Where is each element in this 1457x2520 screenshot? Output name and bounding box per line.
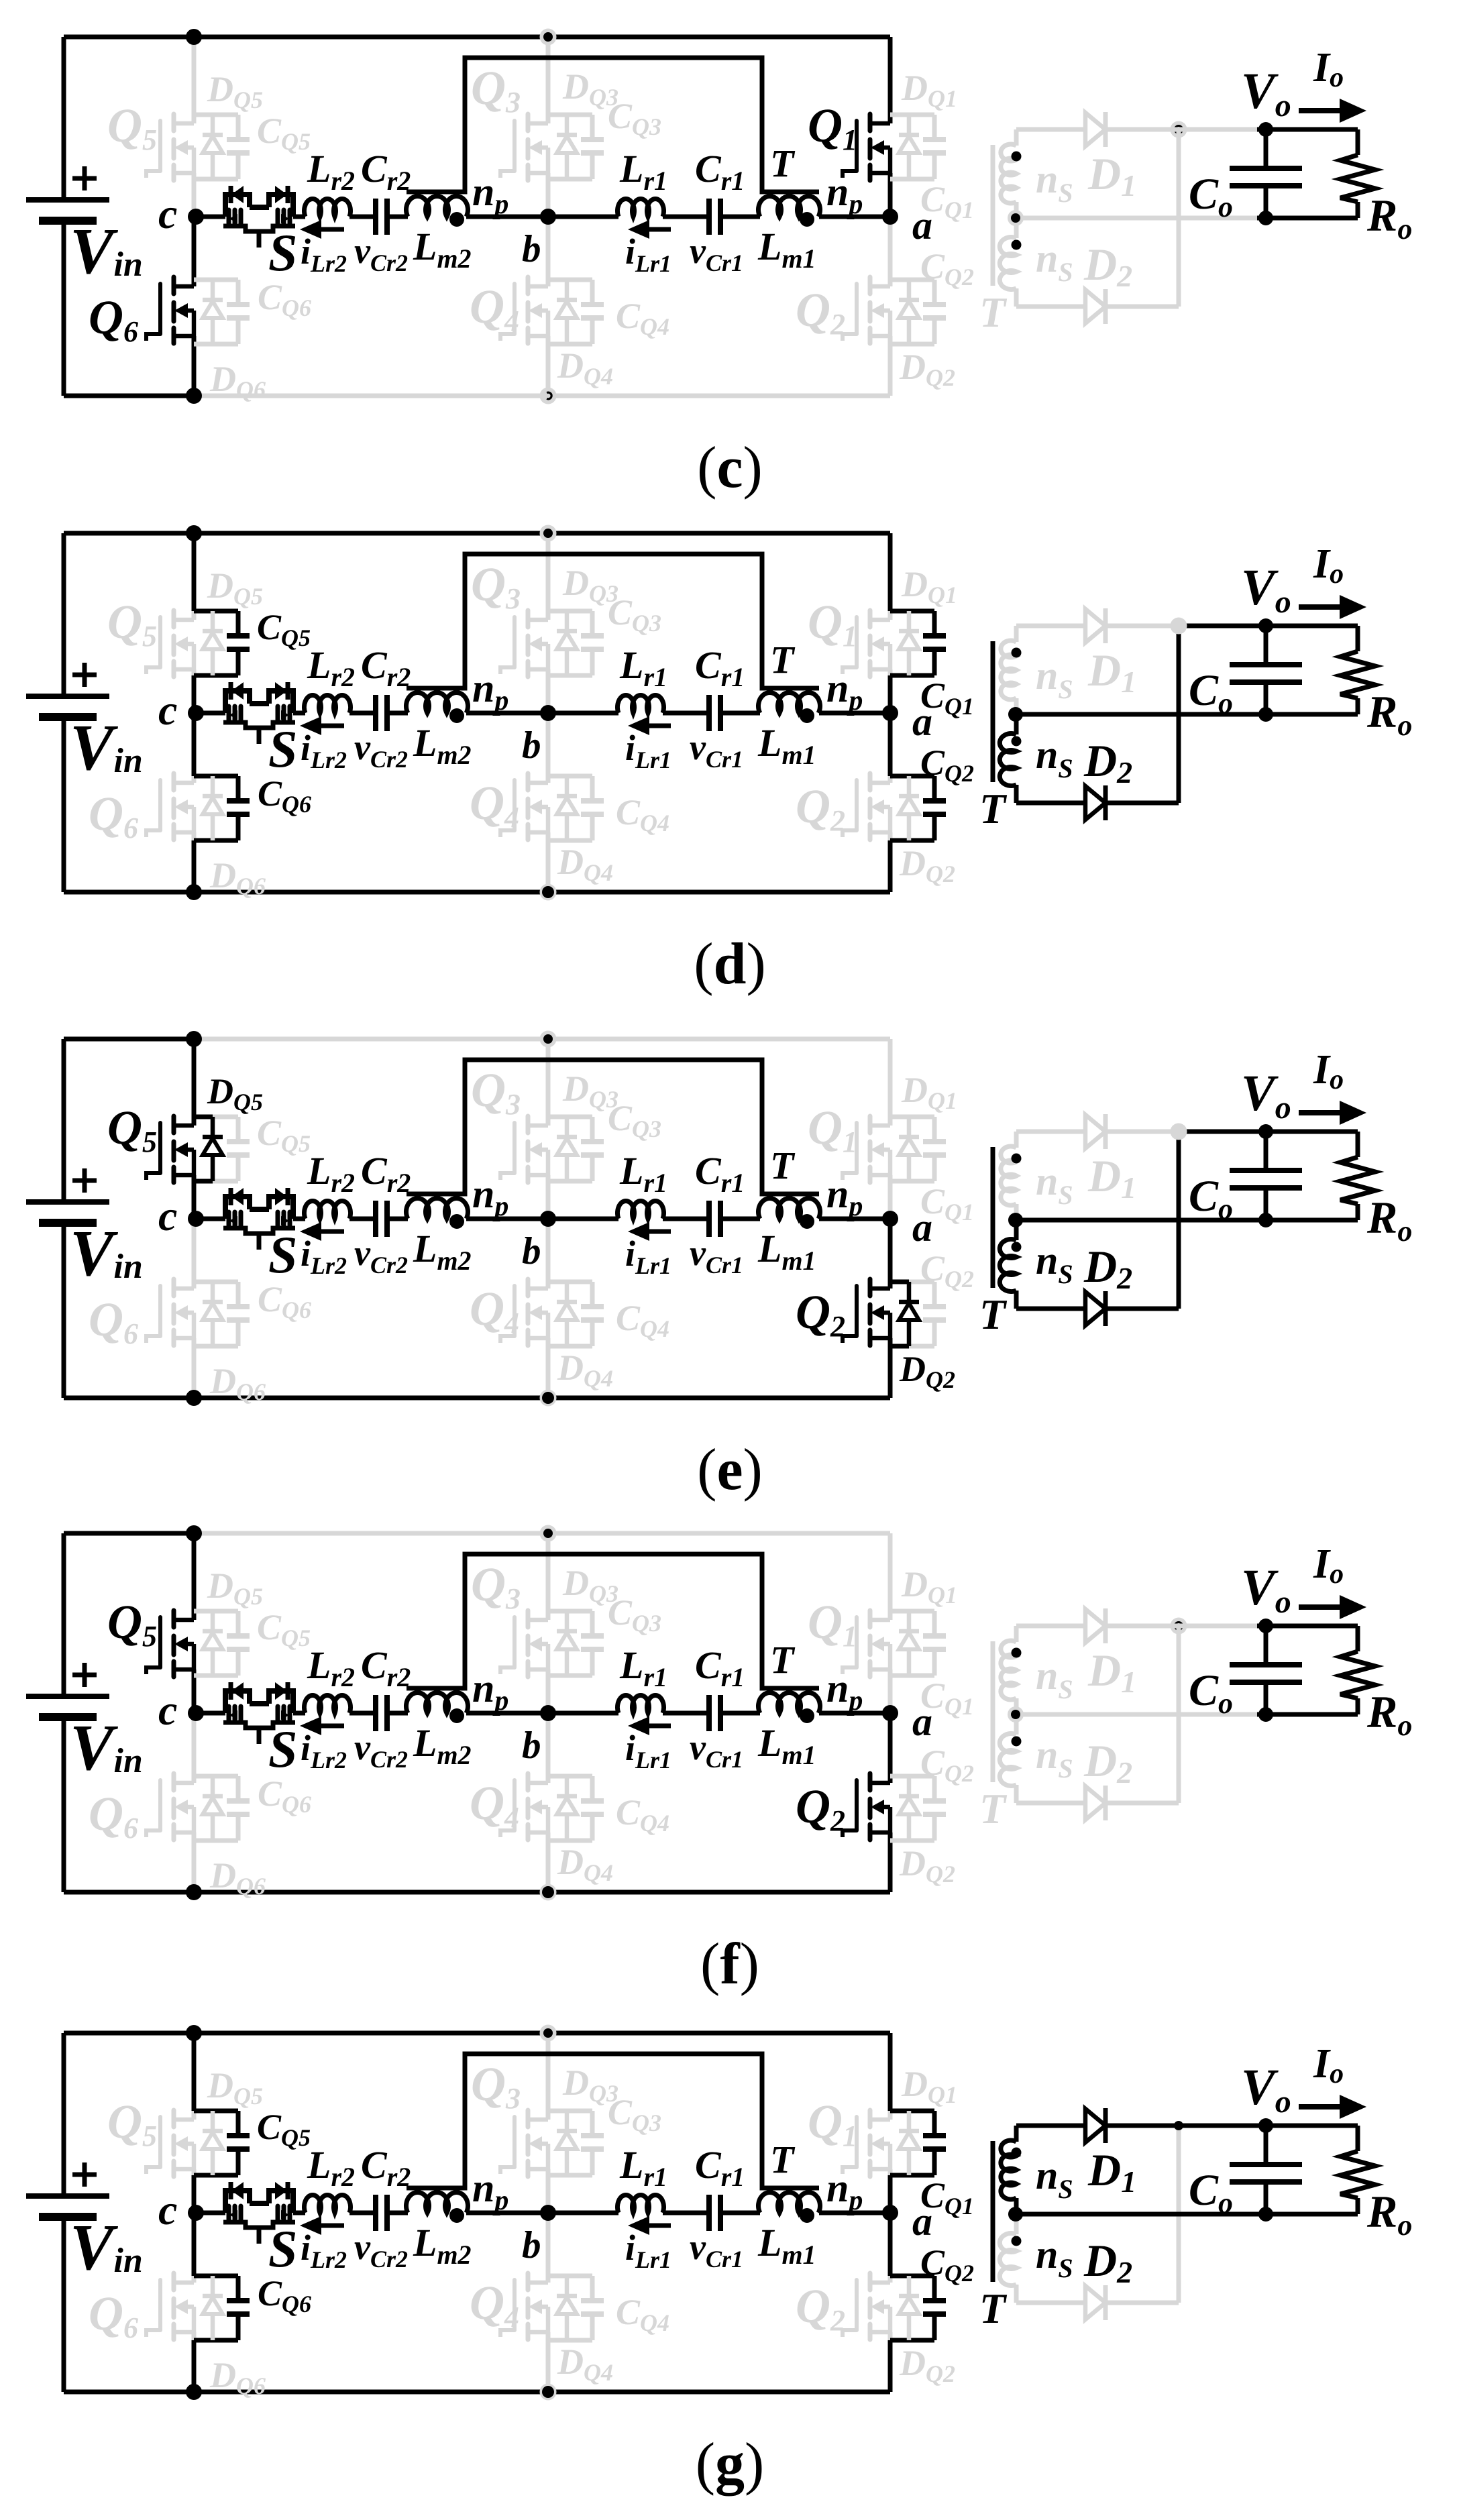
- svg-text:b: b: [522, 1724, 541, 1767]
- wire Q1 drain segment: [888, 1117, 893, 1126]
- wire D1 to junction: [1105, 127, 1179, 132]
- wire Cr1 to Lm1: [720, 1711, 760, 1716]
- wire Q6 leg upper segment: [192, 2213, 197, 2276]
- diode DQ5: [203, 611, 223, 675]
- polarity dot ns bottom: [1012, 2236, 1022, 2246]
- resistor Ro: [1340, 1626, 1375, 1714]
- node rectifier junction: [1171, 1124, 1187, 1140]
- wire Q5 leg upper segment: [192, 1039, 197, 1117]
- wire Q3 branch top: [548, 113, 592, 117]
- wire Q4 branch bottom: [548, 342, 592, 347]
- wire Q5 branch bottom: [194, 2173, 238, 2178]
- node top-middle junction: [540, 525, 557, 542]
- current arrow iLr1: [628, 2216, 671, 2235]
- node bottom-middle junction: [540, 2384, 557, 2401]
- inductor Lr2: [305, 199, 351, 217]
- wire Q1 branch bottom: [890, 673, 934, 678]
- diode DQ2: [899, 1776, 919, 1841]
- wire junction to output top: [1179, 127, 1257, 132]
- wire Q3 source segment: [546, 669, 551, 713]
- capacitor CQ4: [581, 1776, 604, 1841]
- diode DQ3: [557, 1117, 577, 1181]
- wire bottom rail left: [64, 1890, 194, 1895]
- current arrow Io: [1299, 1101, 1366, 1125]
- wire Lm2 to b: [466, 1711, 548, 1716]
- transformer primary winding Lm1 np: [759, 693, 820, 713]
- wire top rail left: [64, 531, 194, 536]
- wire Q4 source segment: [546, 336, 551, 396]
- inductor Lr2: [305, 1695, 351, 1713]
- wire Q5 source segment: [192, 2169, 197, 2213]
- node Vo: [1258, 618, 1273, 633]
- node rectifier junction: [1171, 121, 1187, 138]
- switch S: [223, 186, 296, 248]
- label + polarity: [72, 2162, 97, 2187]
- inductor Lr2: [305, 2195, 351, 2213]
- wire riser D2 branch: [1177, 1626, 1181, 1803]
- node top-middle junction: [540, 1031, 557, 1048]
- svg-text:T: T: [770, 1638, 796, 1682]
- wire Q4 branch top: [548, 774, 592, 779]
- polarity dot ns top: [1012, 2148, 1022, 2158]
- wire Q2 branch bottom: [890, 1839, 934, 1843]
- capacitor CQ6: [227, 1282, 250, 1346]
- wire Q2 branch bottom: [890, 1344, 909, 1349]
- current arrow iLr1: [628, 220, 671, 239]
- wire Q1 leg upper segment: [888, 2033, 893, 2111]
- wire Q6 branch top: [194, 1280, 238, 1284]
- wire Q2 branch bottom: [890, 838, 934, 843]
- polarity dot Lm2: [449, 708, 464, 723]
- svg-text:T: T: [770, 142, 796, 185]
- node top-left junction: [186, 29, 202, 45]
- node Co bottom: [1258, 1213, 1273, 1227]
- node b: [540, 2205, 556, 2221]
- wire top rail right: [194, 35, 890, 40]
- capacitor CQ2: [923, 776, 946, 840]
- wire Q3 branch top: [548, 1115, 592, 1119]
- wire center tap: [1016, 712, 1257, 717]
- wire Q4 drain segment: [546, 1282, 551, 1289]
- node Co bottom: [1258, 1707, 1273, 1722]
- wire S to Lr2: [293, 215, 305, 219]
- diode D2: [1085, 2285, 1105, 2320]
- wire Q3 leg upper segment: [546, 533, 551, 611]
- wire Q4 source segment: [546, 2332, 551, 2392]
- wire top winding to D1: [1016, 2124, 1085, 2128]
- label + polarity: [72, 1663, 97, 1687]
- transformer core bar: [991, 2141, 995, 2282]
- wire Q1 source segment: [888, 1669, 893, 1713]
- diode DQ3: [557, 1611, 577, 1676]
- label + polarity: [72, 1168, 97, 1193]
- wire Q6 branch top: [194, 774, 238, 779]
- wire riser D2 branch: [1177, 1132, 1181, 1309]
- wire Cr1 to Lm1: [720, 2211, 760, 2215]
- capacitor CQ6: [227, 1776, 250, 1841]
- node bottom-left junction: [186, 2384, 202, 2400]
- wire Q3 drain segment: [546, 2111, 551, 2120]
- diode DQ2: [899, 280, 919, 344]
- wire b to Lr1: [548, 2211, 618, 2215]
- transformer primary winding Lm1 np: [759, 197, 820, 217]
- transformer secondary winding ns bottom: [1000, 1714, 1016, 1803]
- wire bottom winding to D2: [1016, 801, 1085, 806]
- transformer core bar: [991, 145, 995, 286]
- wire Q3 branch bottom: [548, 673, 592, 678]
- wire b to Lr1: [548, 215, 618, 219]
- wire Q1 branch top: [890, 2109, 934, 2114]
- wire Q5 drain segment: [192, 1117, 197, 1126]
- wire Q1 branch bottom: [890, 177, 934, 182]
- node a: [882, 1211, 898, 1227]
- svg-text:T: T: [979, 785, 1008, 832]
- wire Q2 drain segment: [888, 280, 893, 286]
- capacitor CQ1: [923, 611, 946, 675]
- capacitor Co: [1230, 2126, 1302, 2214]
- wire Q4 branch bottom: [548, 2338, 592, 2343]
- wire Lm2 to b: [466, 2211, 548, 2215]
- wire riser D2 branch: [1177, 626, 1181, 803]
- wire bottom rail left: [64, 890, 194, 895]
- transformer secondary winding ns top: [1001, 626, 1016, 714]
- wire Q5 branch top: [194, 113, 238, 117]
- wire Q1 branch top: [890, 609, 934, 614]
- transformer secondary winding ns bottom: [1000, 714, 1016, 803]
- capacitor CQ6: [227, 776, 250, 840]
- current arrow Io: [1299, 1595, 1366, 1619]
- wire riser D2 branch: [1177, 129, 1181, 307]
- wire Q4 branch top: [548, 278, 592, 282]
- transistor Q3: [500, 2110, 548, 2177]
- wire junction to output top: [1179, 1624, 1257, 1629]
- capacitor Co: [1230, 129, 1302, 218]
- label + polarity: [72, 166, 97, 190]
- wire bottom rail right: [194, 1396, 890, 1401]
- capacitor CQ4: [581, 1282, 604, 1346]
- resistor Ro: [1340, 626, 1375, 714]
- wire Q1 source segment: [888, 2169, 893, 2213]
- node bottom-middle junction: [540, 1390, 557, 1407]
- diode DQ5: [203, 115, 223, 179]
- wire junction to output top: [1179, 1130, 1257, 1134]
- svg-text:(d): (d): [694, 932, 766, 997]
- transistor Q5: [146, 114, 194, 180]
- wire Q1 branch bottom: [890, 1179, 934, 1184]
- transistor Q1: [843, 2110, 890, 2177]
- wire D2 to riser: [1105, 1307, 1179, 1311]
- wire Q3 drain segment: [546, 115, 551, 123]
- wire Lm2 to b: [466, 711, 548, 716]
- transistor Q6: [146, 1279, 194, 1346]
- winding link bar left: [407, 58, 819, 192]
- transformer primary winding Lm1 np: [759, 1693, 820, 1713]
- transformer secondary winding ns top: [1001, 1132, 1016, 1220]
- wire S to Lr2: [293, 1711, 305, 1716]
- winding link bar left: [407, 1554, 819, 1688]
- wire center tap: [1016, 216, 1257, 221]
- node top-left junction: [186, 525, 202, 541]
- wire bottom rail right: [194, 394, 890, 398]
- diode DQ5: [203, 2111, 223, 2175]
- node top-middle junction: [540, 1525, 557, 1542]
- wire Q3 branch bottom: [548, 1674, 592, 1678]
- wire center tap: [1016, 1712, 1257, 1717]
- capacitor CQ1: [923, 1611, 946, 1676]
- wire Q1 source segment: [888, 1175, 893, 1219]
- wire Q2 leg upper segment: [888, 1219, 893, 1282]
- diode DQ4: [557, 1776, 577, 1841]
- wire Lr2 to Cr2: [349, 711, 376, 716]
- wire Q5 branch top: [194, 1609, 238, 1614]
- wire Lr1 to Cr1: [663, 1711, 709, 1716]
- wire D2 to riser: [1105, 305, 1179, 309]
- wire Q5 drain segment: [192, 115, 197, 123]
- wire Cr2 to Lm2: [387, 1217, 408, 1221]
- wire Q5 branch bottom: [194, 1179, 213, 1184]
- capacitor CQ2: [923, 2276, 946, 2340]
- wire Q3 source segment: [546, 1669, 551, 1713]
- wire Q6 branch bottom: [194, 2338, 238, 2343]
- wire Q5 leg upper segment: [192, 533, 197, 611]
- wire top rail left: [64, 35, 194, 40]
- wire Lm1 to a: [819, 1217, 890, 1221]
- wire c to switch S: [196, 2211, 225, 2215]
- transformer secondary winding ns bottom: [1000, 218, 1016, 307]
- svg-text:b: b: [522, 2224, 541, 2266]
- transistor Q4: [500, 1279, 548, 1346]
- capacitor CQ2: [923, 1282, 946, 1346]
- transistor Q5: [146, 610, 194, 677]
- wire Q3 branch bottom: [548, 2173, 592, 2178]
- wire Lm1 to a: [819, 2211, 890, 2215]
- wire output bottom: [1257, 216, 1358, 221]
- transformer primary winding Lm2 np: [407, 197, 468, 217]
- svg-text:(c): (c): [697, 435, 763, 500]
- switch S: [223, 1188, 296, 1250]
- polarity dot ns top: [1012, 1154, 1022, 1164]
- wire bottom winding to D2: [1016, 1307, 1085, 1311]
- wire Q2 source segment: [888, 1338, 893, 1398]
- wire bottom winding to D2: [1016, 305, 1085, 309]
- svg-text:T: T: [770, 638, 796, 681]
- wire Cr1 to Lm1: [720, 215, 760, 219]
- svg-text:(g): (g): [696, 2431, 765, 2497]
- wire Q5 branch top: [194, 2109, 238, 2114]
- capacitor CQ3: [581, 115, 604, 179]
- wire center tap: [1016, 1218, 1257, 1223]
- wire top rail left: [64, 1037, 194, 1042]
- label + polarity: [72, 663, 97, 687]
- wire output bottom: [1257, 1218, 1358, 1223]
- wire Q6 source segment: [192, 1832, 197, 1892]
- polarity dot Lm2: [449, 1214, 464, 1229]
- capacitor CQ5: [227, 115, 250, 179]
- wire Q4 branch top: [548, 1280, 592, 1284]
- switch S: [223, 682, 296, 744]
- wire Q2 branch bottom: [890, 2338, 934, 2343]
- node c: [188, 1705, 204, 1721]
- node bottom-left junction: [186, 884, 202, 900]
- wire Cr1 to Lm1: [720, 1217, 760, 1221]
- wire Cr2 to Lm2: [387, 711, 408, 716]
- wire D1 to junction: [1105, 624, 1179, 628]
- wire Q6 drain segment: [192, 1282, 197, 1289]
- wire Q6 branch bottom: [194, 1344, 238, 1349]
- current arrow iLr2: [300, 1222, 344, 1241]
- node bottom-middle junction: [540, 884, 557, 901]
- polarity dot ns top: [1012, 648, 1022, 658]
- wire Q4 source segment: [546, 1832, 551, 1892]
- node a: [882, 705, 898, 721]
- wire center tap: [1016, 2212, 1257, 2217]
- transistor Q1: [843, 114, 890, 180]
- wire D2 to riser: [1105, 1801, 1179, 1806]
- wire bottom rail right: [194, 890, 890, 895]
- wire Q4 branch bottom: [548, 1344, 592, 1349]
- node top-middle junction: [540, 29, 557, 46]
- wire Lr2 to Cr2: [349, 2211, 376, 2215]
- node rectifier junction: [1174, 2121, 1183, 2130]
- wire Q1 capacitor path lower segment: [888, 2175, 893, 2213]
- wire Q5 branch bottom: [194, 177, 238, 182]
- current arrow iLr2: [300, 1716, 344, 1735]
- diode D2: [1085, 785, 1105, 820]
- diode DQ4: [557, 776, 577, 840]
- svg-text:c: c: [158, 686, 177, 734]
- polarity dot ns bottom: [1012, 240, 1022, 250]
- wire Q6 leg upper segment: [192, 217, 197, 280]
- node a: [882, 209, 898, 225]
- svg-text:S: S: [268, 720, 297, 778]
- polarity dot Lm2: [449, 212, 464, 227]
- transistor Q4: [500, 773, 548, 840]
- wire Lr1 to Cr1: [663, 1217, 709, 1221]
- svg-text:S: S: [268, 1225, 297, 1284]
- capacitor CQ2: [923, 280, 946, 344]
- wire Q3 drain segment: [546, 1117, 551, 1126]
- wire S to Lr2: [293, 1217, 305, 1221]
- transistor Q4: [500, 277, 548, 343]
- polarity dot Lm1: [800, 212, 814, 227]
- capacitor CQ3: [581, 611, 604, 675]
- wire Q4 leg upper segment: [546, 217, 551, 280]
- node Co bottom: [1258, 707, 1273, 722]
- capacitor CQ6: [227, 2276, 250, 2340]
- diode DQ6: [203, 2276, 223, 2340]
- wire Q1 capacitor path lower segment: [888, 675, 893, 713]
- wire output top: [1257, 2124, 1358, 2128]
- inductor Lr1: [617, 695, 663, 713]
- diode DQ5: [203, 1611, 223, 1676]
- wire Q2 source segment: [888, 2332, 893, 2392]
- node Vo: [1258, 1619, 1273, 1633]
- wire output top: [1257, 624, 1358, 628]
- wire Q5 branch bottom: [194, 1674, 238, 1678]
- wire S to Lr2: [293, 2211, 305, 2215]
- wire output top: [1257, 127, 1358, 132]
- wire Q1 leg upper segment: [888, 1039, 893, 1117]
- wire top rail right: [194, 2031, 890, 2036]
- winding link bar left: [407, 554, 819, 688]
- wire D2 to riser: [1105, 2301, 1179, 2305]
- capacitor Cr2: [376, 695, 387, 731]
- wire Q3 branch top: [548, 1609, 592, 1614]
- transistor Q6: [146, 2273, 194, 2340]
- wire D1 to junction: [1105, 1130, 1179, 1134]
- wire Q4 source segment: [546, 832, 551, 892]
- wire Q5 leg upper segment: [192, 37, 197, 115]
- wire S to Lr2: [293, 711, 305, 716]
- wire Q5 capacitor path lower segment: [192, 675, 197, 713]
- diode D1: [1085, 1608, 1105, 1643]
- wire Q6 branch top: [194, 1774, 238, 1779]
- wire D1 to junction: [1105, 2124, 1179, 2128]
- wire Q4 branch top: [548, 2274, 592, 2279]
- capacitor CQ6: [227, 280, 250, 344]
- wire Q4 leg upper segment: [546, 1219, 551, 1282]
- diode D1: [1085, 608, 1105, 643]
- wire b to Lr1: [548, 1217, 618, 1221]
- wire Q5 drain segment: [192, 1611, 197, 1620]
- wire Q6 leg upper segment: [192, 1713, 197, 1776]
- node bottom-left junction: [186, 1884, 202, 1900]
- wire Q5 source segment: [192, 173, 197, 217]
- svg-text:c: c: [158, 1192, 177, 1240]
- node a: [882, 1705, 898, 1721]
- transistor Q4: [500, 1773, 548, 1840]
- polarity dot ns bottom: [1012, 1737, 1022, 1747]
- current arrow iLr1: [628, 716, 671, 735]
- wire c to switch S: [196, 1217, 225, 1221]
- wire top winding to D1: [1016, 624, 1085, 628]
- wire Q1 branch bottom: [890, 1674, 934, 1678]
- wire Q1 source segment: [888, 173, 893, 217]
- switch S: [223, 1682, 296, 1744]
- svg-text:b: b: [522, 724, 541, 767]
- wire Q4 drain segment: [546, 280, 551, 286]
- current arrow Io: [1299, 2095, 1366, 2119]
- wire Q2 branch top: [890, 774, 934, 779]
- capacitor CQ5: [227, 1117, 250, 1181]
- diode DQ6: [203, 1282, 223, 1346]
- node bottom-left junction: [186, 1390, 202, 1406]
- winding link bar left: [407, 2054, 819, 2188]
- wire Q4 drain segment: [546, 776, 551, 783]
- transistor Q6: [146, 1773, 194, 1840]
- polarity dot Lm2: [449, 2208, 464, 2223]
- wire Q3 leg upper segment: [546, 1533, 551, 1611]
- wire top rail right: [194, 1037, 890, 1042]
- svg-text:T: T: [979, 1785, 1008, 1832]
- wire bottom winding to D2: [1016, 1801, 1085, 1806]
- transistor Q6: [146, 277, 194, 343]
- diode DQ5: [203, 1117, 223, 1181]
- capacitor CQ1: [923, 115, 946, 179]
- capacitor CQ1: [923, 2111, 946, 2175]
- node top-left junction: [186, 2025, 202, 2041]
- transistor Q2: [843, 1279, 890, 1346]
- wire output bottom: [1257, 2212, 1358, 2217]
- wire Lm2 to b: [466, 1217, 548, 1221]
- wire Q6 drain segment: [192, 776, 197, 783]
- node b: [540, 705, 556, 721]
- wire Q6 drain segment: [192, 280, 197, 286]
- svg-text:T: T: [770, 1144, 796, 1187]
- wire bottom rail right: [194, 1890, 890, 1895]
- capacitor Cr1: [709, 1201, 720, 1237]
- node top-left junction: [186, 1525, 202, 1541]
